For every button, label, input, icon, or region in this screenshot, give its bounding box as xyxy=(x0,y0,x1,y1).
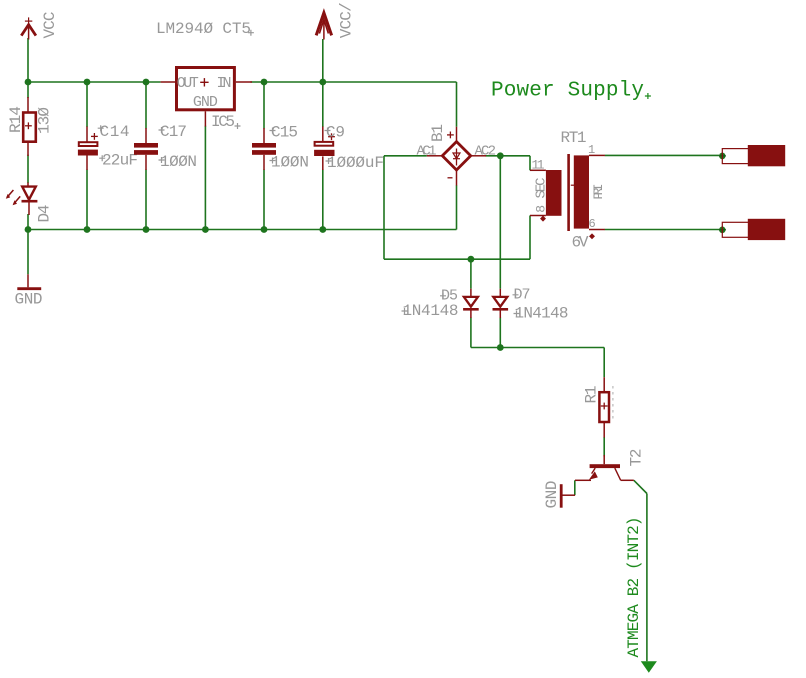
pin 1 line xyxy=(589,154,605,156)
wire loop junction down to D5 xyxy=(470,259,472,289)
wire IC5 GND pin down xyxy=(204,126,206,230)
pin 11 line xyxy=(530,169,546,171)
wire C9 top xyxy=(322,82,324,127)
node bottom rail at IC5 GND xyxy=(202,226,209,233)
wire AC2 right xyxy=(486,155,531,157)
pin - mark xyxy=(448,177,453,179)
node AC2 xyxy=(497,152,504,159)
wire R14 top xyxy=(27,82,29,98)
wire D5 bottom xyxy=(470,318,472,348)
wire to GND symbol xyxy=(27,230,29,275)
wire D4 to rail xyxy=(27,214,29,230)
wire AC1 down xyxy=(383,156,385,259)
svg-text:1ØØØuF: 1ØØØuF xyxy=(327,154,384,172)
svg-text:1N4148: 1N4148 xyxy=(515,305,569,323)
wire top rail right segment xyxy=(250,81,456,83)
emitter xyxy=(592,468,596,474)
PRI coil xyxy=(574,155,589,228)
svg-text:6V: 6V xyxy=(572,234,589,252)
svg-text:GND: GND xyxy=(15,290,43,308)
node bottom rail at C14 xyxy=(84,226,91,233)
emission arrows xyxy=(7,190,13,197)
node top rail at C9 xyxy=(319,79,326,86)
svg-text:IC5: IC5 xyxy=(211,113,235,131)
svg-text:OUT: OUT xyxy=(177,75,199,92)
svg-text:6: 6 xyxy=(589,217,596,231)
wire R1 to T2 base xyxy=(603,437,605,457)
svg-text:AC2: AC2 xyxy=(475,144,497,160)
wire VCC drop xyxy=(27,38,29,82)
svg-text:1ØØN: 1ØØN xyxy=(160,153,197,171)
svg-text:1: 1 xyxy=(588,143,595,157)
svg-text:AC1: AC1 xyxy=(417,144,437,160)
pin + mark xyxy=(200,81,208,83)
base pin xyxy=(603,455,605,464)
node bottom rail at C15 xyxy=(261,226,268,233)
wire C17 top xyxy=(145,82,147,129)
node top rail at C15 xyxy=(261,79,268,86)
wire C15 top xyxy=(263,82,265,129)
svg-text:C9: C9 xyxy=(326,124,345,142)
wire collector diagonal xyxy=(634,480,647,493)
wire C9 bottom xyxy=(322,170,324,230)
wire C14 top xyxy=(86,82,88,127)
value placeholder dashed xyxy=(612,386,614,419)
wire AC2 down to pin11 xyxy=(529,156,531,171)
pin + mark xyxy=(447,134,454,136)
wire VCC2 drop xyxy=(322,39,324,82)
wire T2 emitter down xyxy=(574,480,576,495)
wire C14 bottom xyxy=(86,170,88,230)
wire bottom rail xyxy=(28,229,457,231)
wire loop up to pin8 xyxy=(529,216,531,260)
svg-text:VCC: VCC xyxy=(41,12,59,39)
svg-text:R14: R14 xyxy=(7,106,25,133)
node loop D5 tap xyxy=(468,256,475,263)
svg-text:R1: R1 xyxy=(583,386,601,404)
svg-text:ATMEGA B2 (INT2): ATMEGA B2 (INT2) xyxy=(625,517,643,658)
wire C15 bottom xyxy=(263,170,265,230)
wire trafo pin1 to connector xyxy=(605,154,720,156)
node diode line D7 xyxy=(497,344,504,351)
wire AC2 junction down to D7 xyxy=(499,156,501,289)
svg-text:IN: IN xyxy=(217,75,232,92)
wire bridge bottom to rail xyxy=(456,185,458,229)
origin diamond for 8 xyxy=(540,216,546,222)
svg-text:RT1: RT1 xyxy=(561,129,587,147)
svg-text:11: 11 xyxy=(532,158,545,173)
node bottom rail at C17 xyxy=(143,226,150,233)
wire AC1 left xyxy=(384,155,427,157)
node top rail at C17 xyxy=(143,79,150,86)
pin 6 line xyxy=(589,229,605,231)
node bottom rail at C9 xyxy=(319,226,326,233)
node top rail at VCC xyxy=(25,79,32,86)
wire rail to bridge top xyxy=(456,82,458,127)
svg-text:PRI: PRI xyxy=(591,184,606,200)
svg-text:1ØØN: 1ØØN xyxy=(271,154,309,172)
wire R14 to D4 xyxy=(27,155,29,183)
core xyxy=(567,154,570,231)
origin diamond for 6V xyxy=(589,233,595,239)
SEC coil xyxy=(546,170,562,216)
pin 8 line xyxy=(530,215,546,217)
svg-text:22uF: 22uF xyxy=(102,152,138,170)
svg-text:13Ø: 13Ø xyxy=(36,107,54,134)
wire D7 bottom xyxy=(499,318,501,348)
wire loop bottom xyxy=(384,258,530,260)
svg-text:SEC: SEC xyxy=(534,178,550,199)
svg-text:GND: GND xyxy=(543,481,561,509)
svg-text:GND: GND xyxy=(193,94,218,111)
node bottom rail at GND xyxy=(25,226,32,233)
svg-text:T2: T2 xyxy=(627,449,645,467)
svg-text:LM294Ø CT5: LM294Ø CT5 xyxy=(156,20,251,38)
base bar xyxy=(590,464,620,468)
wire trafo pin6 to connector xyxy=(605,229,720,231)
wire diode line xyxy=(471,347,604,349)
wire top rail left segment xyxy=(28,81,161,83)
svg-text:1N4148: 1N4148 xyxy=(403,302,459,320)
svg-text:B1: B1 xyxy=(429,124,447,142)
svg-text:8: 8 xyxy=(534,205,549,213)
svg-text:D4: D4 xyxy=(36,205,54,223)
wire C17 bottom xyxy=(145,170,147,230)
collector xyxy=(615,468,621,480)
inner diode glyph xyxy=(456,149,458,166)
svg-text:C17: C17 xyxy=(160,123,187,141)
wire collector down xyxy=(646,494,648,662)
svg-text:VCC/: VCC/ xyxy=(337,2,355,38)
svg-text:C14: C14 xyxy=(100,123,130,141)
svg-text:C15: C15 xyxy=(271,124,298,142)
node top rail at C14 xyxy=(84,79,91,86)
wire down to R1 xyxy=(603,348,605,378)
svg-text:Power Supply: Power Supply xyxy=(491,80,644,103)
